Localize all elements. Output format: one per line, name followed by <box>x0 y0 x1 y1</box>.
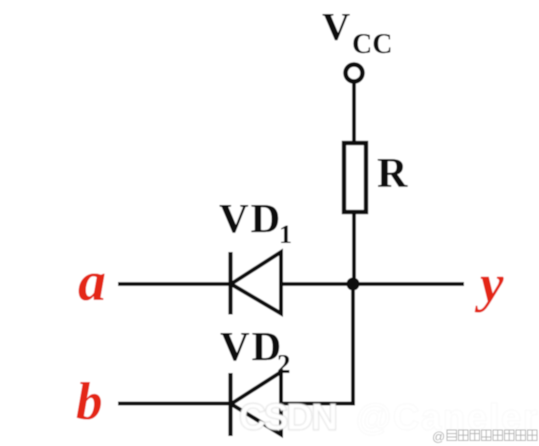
wire resistor to node <box>352 212 356 284</box>
svg-text:a: a <box>78 251 106 313</box>
diode VD1 triangle <box>231 252 281 314</box>
wire b to VD2 cathode <box>118 402 230 406</box>
diode VD2 triangle <box>231 372 281 435</box>
svg-text:b: b <box>76 373 103 431</box>
resistor R <box>344 143 366 212</box>
diode VD1 cathode bar <box>228 252 232 315</box>
svg-text:VD: VD <box>219 195 282 241</box>
wire node down to corner <box>351 284 355 405</box>
svg-text:@Caneler: @Caneler <box>356 397 539 438</box>
wire a to VD1 cathode <box>118 282 230 286</box>
svg-text:CC: CC <box>352 29 392 60</box>
wire VD2 anode to corner <box>281 402 355 406</box>
credit text <box>432 429 537 444</box>
svg-text:V: V <box>322 6 350 49</box>
node junction dot <box>347 278 360 291</box>
svg-text:2: 2 <box>277 349 291 379</box>
Vcc terminal circle <box>346 65 363 82</box>
wire Vcc terminal to resistor <box>352 82 356 145</box>
wire VD1 anode to y <box>281 282 464 286</box>
svg-text:VD: VD <box>220 323 283 369</box>
svg-text:R: R <box>377 151 408 197</box>
diode VD2 cathode bar <box>228 373 232 436</box>
svg-text:@: @ <box>432 429 445 444</box>
svg-text:1: 1 <box>279 220 292 249</box>
svg-text:CSDN: CSDN <box>239 397 336 438</box>
